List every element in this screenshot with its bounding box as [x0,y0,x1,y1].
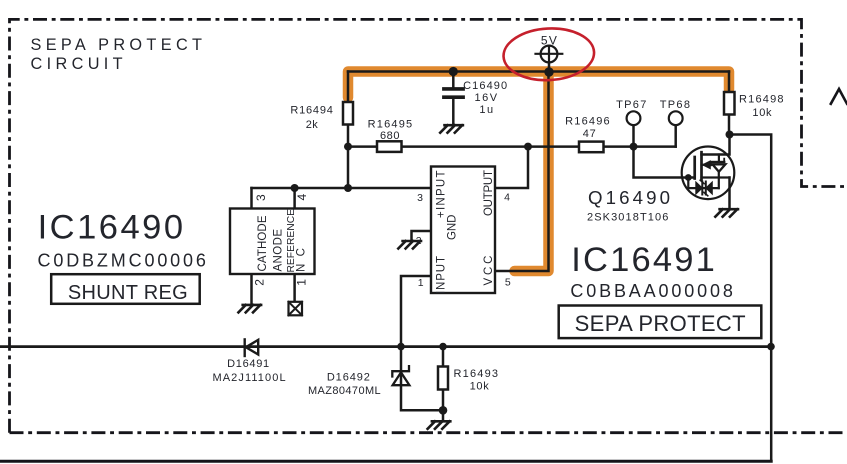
svg-text:SEPA PROTECT: SEPA PROTECT [31,36,207,54]
ground under Q16490 [715,209,738,217]
NC symbol pin1 IC16490 [289,302,303,316]
junction dot output net [524,143,532,151]
svg-text:1u: 1u [479,104,494,116]
ground IC16491 pin2 [398,241,421,249]
wire 5V top rail [348,70,729,73]
svg-text:680: 680 [380,130,400,142]
wire IC16490 pin1 stub [293,274,296,302]
svg-text:TP67: TP67 [616,99,648,111]
test point TP67 [627,111,641,125]
svg-text:+INPUT: +INPUT [436,171,448,219]
svg-text:MAZ80470ML: MAZ80470ML [308,385,381,397]
test point TP68 [669,111,683,125]
wire pin3 net IC16490 to IC16491 [252,187,432,190]
junction dot 5V tap [544,67,553,76]
svg-text:MA2J11100L: MA2J11100L [212,372,286,384]
svg-text:CATHODE: CATHODE [257,215,269,271]
wire main bus [0,345,771,348]
wire IC16491 pin2 gnd stub [412,231,432,240]
svg-text:3: 3 [417,192,423,204]
wire 5V symbol stem [548,62,551,71]
svg-text:R16496: R16496 [565,116,611,128]
svg-text:Q16490: Q16490 [588,187,673,208]
junction dot C16490 tap [449,67,458,76]
svg-text:C0BBAA000008: C0BBAA000008 [570,281,735,301]
red marker ellipse around 5V [502,26,595,82]
svg-text:GND: GND [447,215,459,241]
wire C16490 bottom stem [452,99,455,125]
wire drain Q16490 [702,135,730,155]
svg-text:4: 4 [504,192,510,204]
resistor R16496 [579,142,604,153]
SHUNT REG box [51,274,200,304]
svg-text:2: 2 [416,235,422,247]
junction dot R16493 bottom [439,406,448,415]
wire C16490 top stem [452,72,455,88]
wire VCC vertical (highlighted) [495,72,549,272]
junction dot bus/right branch [767,343,775,351]
svg-text:IC16490: IC16490 [38,208,186,246]
wire right branch down [729,135,771,462]
svg-text:5V: 5V [541,33,558,47]
svg-text:1: 1 [418,277,424,289]
svg-text:C16490: C16490 [463,80,508,92]
svg-text:ANODE: ANODE [273,229,285,272]
svg-text:INPUT: INPUT [436,256,448,294]
wire TP67 stem [632,125,635,146]
junction dot pin3 net vertical [344,184,352,192]
svg-text:2k: 2k [306,119,319,131]
svg-text:4: 4 [295,194,309,201]
svg-text:TP68: TP68 [660,99,692,111]
svg-text:REFERENCE: REFERENCE [286,209,297,273]
wire IC16491 pin1 input [401,276,431,347]
svg-text:IC16491: IC16491 [571,241,717,279]
svg-text:OUTPUT: OUTPUT [483,170,495,216]
wire R16498 bottom stub [728,115,731,135]
bottom solid boundary line [0,460,771,463]
wire IC16490 pin2 stub [250,274,253,304]
wire TP68 stem [674,125,677,146]
off-page arrow mark right edge [831,89,847,104]
5V power symbol [536,46,563,63]
svg-text:3: 3 [254,194,268,201]
svg-text:2: 2 [253,279,267,286]
transistor Q16490 [682,147,735,200]
zener diode D16492 [392,366,409,385]
ground under R16493 [428,421,451,429]
svg-text:2SK3018T106: 2SK3018T106 [587,212,669,224]
IC16491 box [431,167,495,294]
svg-text:47: 47 [583,128,597,140]
junction dot gate zener [685,174,692,181]
wire R16498 top stub [728,72,731,93]
wire IC16490 pin3 stub [250,188,253,209]
wire IC16491 pin4 output [495,147,528,188]
resistor R16494 [343,102,353,125]
wire R16493 ground stem [442,410,445,420]
ground under C16490 [440,125,463,133]
svg-text:5: 5 [505,277,511,289]
svg-text:SEPA PROTECT: SEPA PROTECT [575,311,746,336]
resistor R16495 [377,141,402,152]
wire gate net to Q16490 [634,147,695,178]
junction dot TP67/gate [630,143,638,151]
svg-text:R16494: R16494 [290,105,333,117]
svg-text:10k: 10k [752,107,772,119]
junction dot bus/D16492 [397,343,405,351]
resistor R16493 [438,367,448,390]
wire mid horizontal R16495/R16496 [348,145,676,148]
svg-text:CIRCUIT: CIRCUIT [31,55,127,73]
capacitor C16490 [444,89,463,97]
junction dot bus/R16493 [439,343,447,351]
junction dot R16498/drain [726,131,734,139]
orange highlight net 5V [348,72,729,272]
IC16490 box [230,209,315,275]
junction dot pin4 stub [291,184,299,192]
svg-text:D16491: D16491 [227,358,270,370]
svg-text:R16495: R16495 [368,119,414,131]
wire R16494 branch vertical [347,72,350,189]
SEPA PROTECT box [559,306,762,339]
svg-text:10k: 10k [470,381,490,393]
svg-text:SHUNT REG: SHUNT REG [68,282,188,304]
ground IC16490 pin2 [238,305,261,313]
resistor R16498 [724,92,735,115]
svg-text:1: 1 [295,279,309,286]
svg-text:R16493: R16493 [454,368,500,380]
svg-text:VCC: VCC [483,256,495,286]
junction dot R16494/R16495 [344,143,352,151]
svg-text:D16492: D16492 [327,372,371,384]
diode D16491 [245,339,259,356]
svg-text:16V: 16V [474,92,498,104]
svg-text:C0DBZMC00006: C0DBZMC00006 [38,251,209,271]
wire D16492 branch [401,347,443,411]
wire IC16490 pin4 stub [293,188,296,209]
wire R16493 branch [442,347,445,411]
wire source Q16490 to ground [728,178,731,210]
svg-text:R16498: R16498 [739,94,785,106]
